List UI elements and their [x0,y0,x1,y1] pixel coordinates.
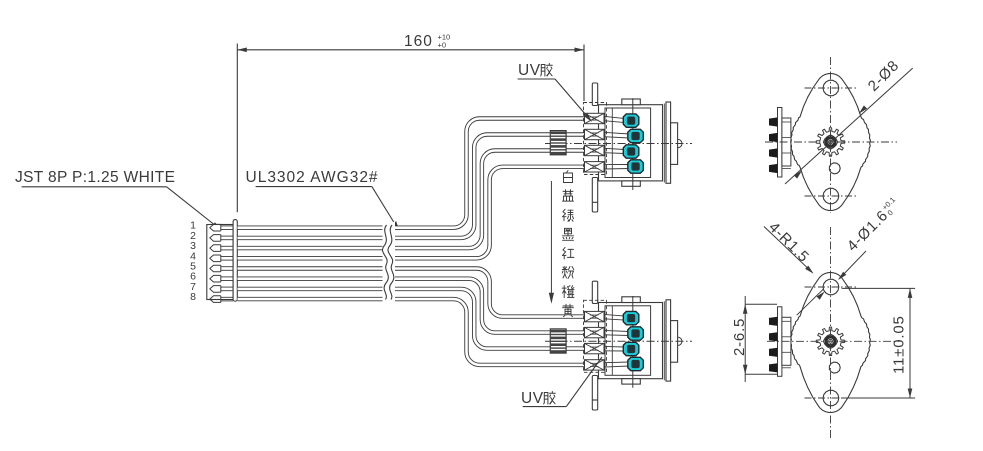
wire W2 [238,135,586,238]
label UV glue (lower) [521,390,555,407]
motor M1 (upper) body [599,105,663,181]
sleeve S2 on wires (lower) [550,329,566,353]
motor M2 (lower) hidden outline (dashed) [584,300,607,372]
motor M1 (upper) terminal plate box [605,108,651,178]
motor M2 (lower) bearing boss [671,321,678,363]
motor M1 (upper) shaft nub [678,139,682,147]
motor M1 (upper) bracket tab upper [592,83,597,106]
svg-text:11±0.05: 11±0.05 [891,315,908,374]
dimension 2-6.5 [743,296,777,382]
flow arrow (wire order direction) [549,181,554,304]
motor M1 (upper) solder joint 1 (teal) [623,114,639,127]
motor M1 (upper) bearing boss [671,123,678,165]
motor M1 (upper) centerline [545,143,692,145]
connector J1 pin 7 [210,286,233,293]
dimension 4-Ø1.6 leader [797,251,866,315]
wire W3 [238,151,586,249]
svg-text:2-6.5: 2-6.5 [731,318,748,356]
motor M1 (upper) terminal pin link 3 [604,148,625,153]
motor M2 (lower) bracket tab upper [592,281,597,303]
connector J1 pin 4 [210,255,233,262]
front view motor M1 pin 3 [769,148,778,157]
leader line JST [22,187,221,230]
motor M2 (lower) pin row centerline [632,296,634,388]
leader line UL3302 [256,187,400,231]
motor M1 (upper) solder joint 2 (teal) [628,129,644,142]
label UL3302 AWG32# [246,169,379,186]
motor M2 (lower) end cap [663,300,671,381]
connector J1 pin 2 [210,235,233,242]
front view motor M2 bracket plate edge [778,307,782,377]
front view motor M1 outline with mounting ears [791,74,871,211]
front view motor M1 bracket plate edge [778,108,782,178]
front view motor M1 pin 4 [769,164,778,173]
front view motor M1 pin 2 [769,133,778,142]
front view motor M1 bobbin flange [782,118,791,169]
wire W1 [238,119,586,228]
motor M1 (upper) terminal pin link 4 [604,165,629,170]
dimension text 160 +10/+0 [404,33,450,51]
front view motor M2 pin 1 [769,317,778,326]
wire W7 [238,289,586,349]
connector J1 pin 1 [210,224,233,231]
motor M2 (lower) solder joint 2 (teal) [628,327,644,340]
motor M2 (lower) crimp terminal 2 [585,327,605,337]
motor M2 (lower) shaft nub [678,337,682,345]
front view motor M1 small hole [829,163,840,174]
dimension 160 +10/+0 extension line right [583,45,585,102]
front view motor M1 pin 1 [769,117,778,126]
motor M2 (lower) coil boss lower [622,379,641,384]
front view motor M2 pin 3 [769,348,778,357]
svg-text:UV: UV [518,62,541,79]
front view motor M1 ear hole lower [823,188,839,203]
motor M1 (upper) terminal pin link 1 [604,116,625,122]
leader line UV glue upper [518,79,592,122]
front view motor M2 ear hole lower [823,390,839,405]
motor M1 (upper) crimp terminal 3 [585,145,605,155]
pin numbers 1-8 [190,220,196,303]
motor M1 (upper) coil boss upper [622,99,641,105]
motor M1 (upper) solder joint 3 (teal) [623,145,639,158]
motor M2 (lower) terminal plate box [605,306,651,376]
wire W4 [238,167,586,258]
front view motor M2 ear hole upper [823,279,839,294]
front view of motor M2 centerlines [767,227,900,438]
dimension 2-Ø8 line [785,68,913,184]
dimension 11±0.05 [842,288,916,398]
wire W8 [238,299,586,365]
motor M1 (upper) pin row centerline [632,98,634,190]
motor M2 (lower) terminal pin link 1 [604,314,625,320]
motor M1 (upper) hidden outline (dashed) [584,103,607,175]
front view motor M2 pin 2 [769,332,778,341]
motor M1 (upper) terminal pin link 2 [604,132,629,138]
svg-text:8: 8 [190,291,196,303]
svg-text:+0: +0 [438,41,447,50]
motor M2 (lower) solder joint 3 (teal) [623,342,639,355]
wire W5 [238,269,586,317]
front view motor M2 pin 4 [769,363,778,372]
dimension 160 +10/+0 line and arrows [237,48,584,53]
connector J1 pin 6 [210,275,233,282]
front view motor M2 ear hole centerlines [805,287,857,398]
motor M2 (lower) centerline [545,340,692,342]
motor M1 (upper) coil boss lower [622,181,641,186]
front view of motor M1 centerlines [765,57,897,213]
motor M2 (lower) terminal pin link 4 [604,362,629,367]
wire W6 [238,279,586,333]
leader line UV glue lower [523,357,602,407]
svg-text:160: 160 [404,33,433,50]
motor M2 (lower) crimp terminal 4 [585,360,605,370]
dimension text 11±0.05 [891,315,908,374]
connector J1 pin 3 [210,245,233,252]
motor M2 (lower) coil boss upper [622,297,641,303]
dimension text 2-Ø8 [865,57,903,95]
front view motor M2 bobbin flange [782,317,791,368]
dimension text 4-Ø1.6 +0.1/0 [843,195,903,255]
motor M2 (lower) bracket tab lower [592,376,597,411]
motor M1 (upper) crimp terminal 2 [585,129,605,139]
motor M1 (upper) bracket tab lower [592,178,597,213]
motor M2 (lower) crimp terminal 3 [585,343,605,353]
front view motor M1 pinion gear [816,128,844,156]
label UV glue (upper) [518,62,552,79]
break symbol on wires [382,222,395,302]
svg-text:JST 8P P:1.25 WHITE: JST 8P P:1.25 WHITE [15,169,175,186]
dimension text 4-R1.5 [765,219,812,266]
connector J1 pin 8 [210,296,233,303]
svg-text:UV: UV [521,390,544,407]
connector J1 pin 5 [210,265,233,272]
dimension text 2-6.5 [731,318,748,356]
front view motor M1 ear hole centerlines [805,88,857,196]
motor M2 (lower) terminal pin link 2 [604,330,629,335]
motor M1 (upper) crimp terminal 4 [585,162,605,172]
dimension 4-R1.5 leader [764,227,814,274]
svg-text:UL3302 AWG32#: UL3302 AWG32# [246,169,379,186]
label JST 8P P:1.25 WHITE [15,169,175,186]
connector J1 retainer bar [233,220,237,302]
motor M1 (upper) solder joint 4 (teal) [628,160,644,173]
motor M2 (lower) crimp terminal 1 [585,311,605,321]
motor M2 (lower) solder joint 4 (teal) [628,357,644,370]
motor M2 (lower) terminal pin link 3 [604,346,625,351]
motor M1 (upper) end cap [663,102,671,183]
front view motor M1 ear hole upper [823,80,839,95]
label wire colors white/blue/green/black/red/pink/orange/yellow [562,171,574,317]
sleeve S1 on wires (upper) [550,131,566,155]
front view motor M2 outline with mounting ears [791,273,871,413]
motor M2 (lower) solder joint 1 (teal) [623,311,639,324]
motor M2 (lower) body [599,303,663,379]
front view motor M2 small hole [829,362,840,373]
motor M1 (upper) crimp terminal 1 [585,113,605,123]
connector J1 body [207,225,233,300]
dimension 160 +10/+0 extension line left [236,44,238,213]
front view motor M2 pinion gear [816,327,844,355]
